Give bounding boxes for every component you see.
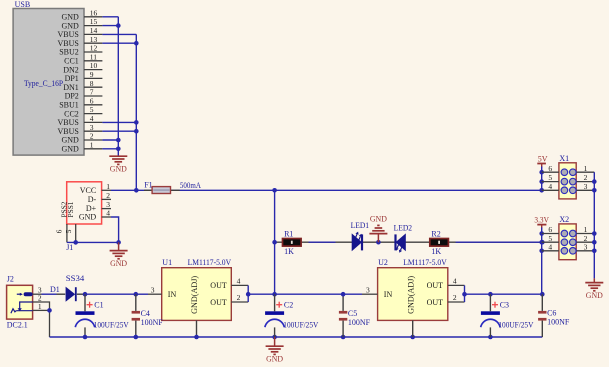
svg-text:PSS1: PSS1	[66, 201, 75, 217]
capacitor C1 100UF/25V	[75, 294, 129, 337]
USB pin 14 VBUS	[57, 26, 102, 39]
J2 center pin symbol	[24, 292, 33, 296]
svg-text:4: 4	[548, 182, 552, 191]
header X2 body	[559, 224, 576, 260]
svg-text:GND: GND	[61, 145, 79, 154]
junction X1 pin5	[539, 179, 544, 184]
svg-text:LED2: LED2	[394, 224, 413, 233]
wire USB pin4 to VBUS net	[102, 121, 136, 123]
wire J1 pin4 GND down	[111, 217, 119, 242]
svg-text:5V: 5V	[538, 154, 548, 163]
wire 5V column X1	[541, 167, 543, 191]
U1 pin 3 IN	[148, 285, 162, 294]
svg-text:SBU1: SBU1	[59, 101, 79, 110]
U2 pin 2 OUT	[448, 293, 465, 302]
svg-text:3: 3	[90, 123, 94, 132]
junction 5V rail to regulator output	[272, 188, 277, 193]
svg-text:DN2: DN2	[63, 65, 79, 74]
svg-text:D1: D1	[50, 285, 60, 294]
wire USB GND vertical	[117, 17, 119, 156]
svg-text:GND: GND	[370, 215, 387, 224]
fuse F1 pins	[144, 189, 180, 191]
junction J1 GND stub	[116, 240, 121, 245]
svg-text:1: 1	[584, 225, 588, 234]
wire USB pin14 to VBUS net	[102, 33, 136, 35]
junction ground rail C5	[341, 335, 346, 340]
USB pin 6 SBU1	[59, 96, 102, 109]
svg-text:VCC: VCC	[80, 186, 96, 195]
junction USB pin2	[116, 138, 121, 143]
op-amp U1 LM1117 body	[162, 268, 232, 321]
svg-text:C1: C1	[94, 300, 103, 309]
resistor R1 1K	[283, 230, 302, 257]
USB pin 9 DP1	[65, 70, 103, 83]
svg-text:GND(ADJ): GND(ADJ)	[406, 276, 415, 314]
svg-text:6: 6	[55, 229, 64, 233]
svg-text:X1: X1	[559, 154, 569, 163]
svg-text:4: 4	[453, 277, 457, 286]
wire U1 output to C2 C5 U2	[248, 293, 362, 295]
wire J1 pin1 VCC to fuse	[111, 189, 136, 191]
svg-text:GND: GND	[586, 291, 603, 300]
J1 pin 6	[55, 224, 67, 242]
capacitor C5 100NF	[339, 294, 371, 337]
power 3.3V flag	[534, 215, 549, 228]
svg-text:5: 5	[548, 173, 552, 182]
svg-text:SBU2: SBU2	[59, 48, 79, 57]
X2 row 3 pins	[542, 242, 595, 254]
junction 3.3V at X2 column	[540, 240, 545, 245]
USB pin 16 GND	[61, 8, 102, 21]
junction X2 pin4	[539, 249, 544, 254]
X2 row 1 pins	[542, 225, 595, 237]
capacitor C4 100NF	[132, 294, 164, 337]
svg-text:X2: X2	[559, 215, 569, 224]
wire U1 output bracket	[247, 285, 249, 302]
svg-text:7: 7	[90, 88, 94, 97]
svg-text:3: 3	[151, 285, 155, 294]
junction 3.3V column at output	[540, 292, 545, 297]
wire X1 right GND column	[593, 172, 595, 278]
USB pin 1 GND	[61, 140, 102, 153]
wire ground rail	[50, 336, 543, 338]
USB pin 2 GND	[61, 132, 102, 145]
junction X1 right pin3	[592, 188, 597, 193]
svg-text:VBUS: VBUS	[57, 118, 78, 127]
junction ground rail C2	[272, 335, 277, 340]
capacitor C6 100NF	[538, 294, 570, 337]
svg-text:2: 2	[237, 293, 241, 302]
junction ground rail U1 GND	[194, 335, 199, 340]
svg-text:OUT: OUT	[210, 281, 227, 290]
USB pin 7 DP2	[65, 88, 103, 101]
svg-text:100UF/25V: 100UF/25V	[94, 321, 129, 330]
USB pin 8 DN1	[63, 79, 102, 92]
svg-text:13: 13	[90, 35, 98, 44]
svg-text:4: 4	[90, 114, 94, 123]
wire U2 output bracket	[464, 285, 466, 302]
wire R2 to 3.3V net	[456, 241, 543, 243]
svg-text:1: 1	[106, 182, 110, 191]
svg-text:2: 2	[453, 293, 457, 302]
svg-text:12: 12	[90, 44, 98, 53]
svg-text:J1: J1	[66, 243, 73, 252]
svg-text:R2: R2	[431, 230, 440, 239]
svg-text:VBUS: VBUS	[57, 127, 78, 136]
svg-text:R1: R1	[284, 230, 293, 239]
svg-text:100NF: 100NF	[547, 318, 570, 327]
J2 pin 3	[33, 286, 42, 295]
svg-text:C6: C6	[547, 309, 556, 318]
svg-text:IN: IN	[384, 290, 393, 299]
svg-text:1K: 1K	[431, 247, 441, 256]
J2 sleeve contact	[20, 302, 33, 309]
svg-text:1: 1	[90, 140, 94, 149]
svg-text:100UF/25V: 100UF/25V	[283, 321, 318, 330]
junction ground rail U2 GND	[410, 335, 415, 340]
junction U2 output	[462, 292, 467, 297]
svg-text:GND: GND	[61, 21, 79, 30]
wire USB pin13 to VBUS net	[102, 42, 136, 44]
svg-text:GND: GND	[79, 213, 97, 222]
junction X2 pin6	[539, 231, 544, 236]
USB pin 11 CC1	[64, 52, 102, 65]
svg-text:SS34: SS34	[66, 274, 85, 283]
svg-text:GND: GND	[110, 164, 127, 173]
U1 pin 4 OUT	[231, 277, 248, 286]
junction VBUS J1 rail	[134, 188, 139, 193]
svg-text:100UF/25V: 100UF/25V	[498, 321, 533, 330]
junction C3 top	[488, 292, 493, 297]
wire USB pin16 to GND net	[102, 16, 118, 18]
svg-text:4: 4	[106, 209, 110, 218]
svg-text:U2: U2	[378, 258, 388, 267]
svg-text:15: 15	[90, 17, 98, 26]
ground J1	[110, 242, 128, 267]
wire J2 pin3 to D1	[42, 293, 57, 295]
svg-text:CC1: CC1	[64, 57, 79, 66]
svg-text:16: 16	[90, 8, 98, 17]
wire D1 to C4 junction	[85, 293, 136, 295]
svg-text:2: 2	[584, 173, 588, 182]
svg-text:5: 5	[64, 229, 73, 233]
USB pin 15 GND	[61, 17, 102, 30]
svg-text:GND: GND	[110, 259, 127, 268]
junction J1 pin5 GND	[73, 240, 78, 245]
svg-text:Type_C_16P: Type_C_16P	[24, 79, 64, 88]
svg-text:1: 1	[584, 164, 588, 173]
junction ground rail C4	[134, 335, 139, 340]
junction D1 cathode C1	[83, 292, 88, 297]
header X1 body	[559, 163, 576, 199]
USB pin 5 CC2	[64, 105, 102, 118]
X1 row 1 pins	[542, 164, 595, 176]
svg-text:3: 3	[584, 182, 588, 191]
ground main rail	[266, 337, 284, 363]
wire R1 to LED1	[309, 241, 336, 243]
junction X2 pin5	[539, 240, 544, 245]
J2 pin 2	[33, 293, 42, 302]
wire USB pin2 to GND net	[102, 139, 118, 141]
fuse F1	[152, 187, 170, 194]
USB pin 13 VBUS	[57, 35, 102, 48]
svg-text:8: 8	[90, 79, 94, 88]
junction X1 right pin2	[592, 179, 597, 184]
ground USB	[109, 156, 127, 173]
junction USB pin13	[134, 41, 139, 46]
svg-text:GND: GND	[61, 136, 79, 145]
diode D1 SS34	[57, 287, 86, 302]
U1 pin 1 GND	[196, 320, 198, 337]
svg-text:4: 4	[237, 277, 241, 286]
svg-text:LED1: LED1	[351, 221, 370, 230]
power 5V flag	[537, 154, 547, 167]
LED1	[352, 232, 362, 252]
U2 pin 3 IN	[362, 285, 378, 294]
svg-text:OUT: OUT	[427, 281, 444, 290]
connector J2 DC jack body	[7, 285, 33, 319]
svg-text:DC2.1: DC2.1	[7, 321, 28, 330]
wire USB pin15 to GND net	[102, 25, 118, 27]
svg-text:14: 14	[90, 26, 98, 35]
USB pin 10 DN2	[63, 61, 102, 74]
junction X2 right pin2	[592, 240, 597, 245]
svg-text:VBUS: VBUS	[57, 30, 78, 39]
junction C4 top	[134, 292, 139, 297]
wire J2 pin2 pin1 to ground rail	[42, 302, 50, 337]
svg-text:5: 5	[90, 105, 94, 114]
wire LED row pins	[275, 241, 543, 243]
svg-text:DP2: DP2	[65, 92, 79, 101]
J2 pin 1	[33, 302, 42, 311]
J1 pin 4 GND	[79, 209, 111, 222]
svg-text:3: 3	[366, 285, 370, 294]
svg-text:GND: GND	[61, 13, 79, 22]
wire J1 pins 5 6 to GND	[67, 241, 119, 243]
wire USB VBUS vertical	[135, 34, 137, 190]
svg-text:C4: C4	[141, 309, 150, 318]
junction USB pin3	[134, 129, 139, 134]
svg-text:J2: J2	[7, 274, 14, 283]
wire USB pin3 to VBUS net	[102, 130, 136, 132]
svg-text:DP1: DP1	[65, 74, 79, 83]
svg-text:C5: C5	[348, 309, 357, 318]
svg-text:OUT: OUT	[210, 298, 227, 307]
svg-text:4: 4	[548, 242, 552, 251]
junction LED cathodes	[376, 240, 381, 245]
U2 pin 1 GND	[412, 320, 414, 337]
junction C5 top	[341, 292, 346, 297]
connector J1 body	[67, 182, 102, 224]
svg-text:CC2: CC2	[64, 109, 79, 118]
svg-text:100NF: 100NF	[348, 318, 371, 327]
wire C4 junction to U1 IN	[136, 293, 148, 295]
J1 pin 2 D-	[88, 191, 111, 204]
junction USB pin1	[116, 147, 121, 152]
svg-text:IN: IN	[168, 290, 177, 299]
junction X2 right pin3	[592, 249, 597, 254]
svg-text:OUT: OUT	[427, 298, 444, 307]
svg-text:GND: GND	[266, 354, 283, 363]
J2 chassis squiggle	[11, 309, 16, 313]
svg-text:3: 3	[584, 242, 588, 251]
svg-text:DN1: DN1	[63, 83, 79, 92]
J1 pin 3 D+	[86, 200, 111, 213]
svg-text:500mA: 500mA	[180, 181, 201, 190]
USB pin 12 SBU2	[59, 44, 102, 57]
wire 5V rail	[136, 189, 542, 191]
svg-text:2: 2	[106, 191, 110, 200]
junction X1 pin6	[539, 170, 544, 175]
X1 row 3 pins	[542, 182, 595, 194]
svg-text:LM1117-5.0V: LM1117-5.0V	[403, 258, 447, 267]
capacitor C2 100UF/25V	[265, 294, 319, 337]
wire 5V vertical to LED rail	[274, 190, 276, 294]
junction ground rail C3	[488, 335, 493, 340]
svg-text:100NF: 100NF	[141, 318, 164, 327]
svg-text:USB: USB	[15, 0, 31, 9]
wire 3.3V column X2	[541, 227, 543, 294]
junction USB pin15	[116, 23, 121, 28]
U2 pin 4 OUT	[448, 277, 465, 286]
svg-text:6: 6	[548, 164, 552, 173]
svg-text:2: 2	[90, 132, 94, 141]
junction U1 output	[246, 292, 251, 297]
junction USB pin4	[134, 120, 139, 125]
svg-text:LM1117-5.0V: LM1117-5.0V	[188, 258, 232, 267]
ground middle inverted	[369, 215, 387, 243]
junction LED rail at 5V vertical	[272, 240, 277, 245]
connector USB Type_C_16P body	[13, 9, 84, 156]
svg-text:11: 11	[90, 52, 97, 61]
svg-text:6: 6	[90, 96, 94, 105]
capacitor C3 100UF/25V	[481, 294, 534, 337]
svg-text:1: 1	[38, 302, 42, 311]
J1 pin 1 VCC	[80, 182, 111, 195]
wire USB pin1 to GND net	[102, 148, 118, 150]
junction J2 pin1	[47, 308, 52, 313]
U1 pin 2 OUT	[231, 293, 248, 302]
resistor R2 1K	[430, 230, 449, 257]
svg-text:10: 10	[90, 61, 98, 70]
junction ground rail C1	[83, 335, 88, 340]
svg-text:F1: F1	[144, 180, 152, 189]
J1 pin 5	[64, 224, 76, 242]
USB pin 3 VBUS	[57, 123, 102, 136]
svg-text:C2: C2	[284, 300, 293, 309]
svg-text:C3: C3	[500, 300, 509, 309]
X2 row 2 pins	[542, 234, 595, 246]
op-amp U2 LM1117 body	[378, 268, 448, 321]
junction X1 pin4 rail	[539, 188, 544, 193]
svg-text:6: 6	[548, 225, 552, 234]
LED2	[396, 233, 406, 252]
svg-text:GND(ADJ): GND(ADJ)	[190, 276, 199, 314]
svg-text:3.3V: 3.3V	[534, 215, 549, 224]
ground X1 X2 column	[585, 278, 603, 299]
junction 5V vertical at output rail	[272, 292, 277, 297]
X1 row 2 pins	[542, 173, 595, 185]
svg-text:9: 9	[90, 70, 94, 79]
svg-text:D-: D-	[88, 195, 97, 204]
svg-text:1K: 1K	[284, 247, 294, 256]
svg-text:U1: U1	[162, 258, 172, 267]
wire U2 output to X2 column	[465, 293, 543, 295]
USB pin 4 VBUS	[57, 114, 102, 127]
svg-text:VBUS: VBUS	[57, 39, 78, 48]
junction X2 right pin1	[592, 231, 597, 236]
J2 plug arrow	[17, 293, 23, 296]
